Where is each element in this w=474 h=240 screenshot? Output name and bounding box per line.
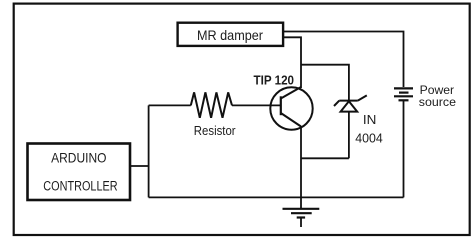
svg-text:MR damper: MR damper: [197, 28, 263, 43]
svg-text:IN: IN: [363, 113, 377, 127]
svg-text:ARDUINO: ARDUINO: [51, 149, 106, 165]
svg-text:source: source: [419, 95, 457, 109]
svg-text:TIP 120: TIP 120: [254, 72, 295, 87]
svg-text:CONTROLLER: CONTROLLER: [43, 178, 117, 194]
svg-text:4004: 4004: [355, 131, 383, 146]
svg-text:Resistor: Resistor: [194, 124, 236, 138]
